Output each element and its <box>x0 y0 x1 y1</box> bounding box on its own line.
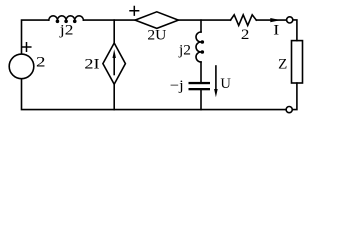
resistor R1 2 <box>231 15 257 26</box>
arrow inside 2I source (pointing up) <box>113 57 115 75</box>
wire left rail top: source to top-left corner and to inductor <box>22 20 49 54</box>
wire bottom rail and left rail bottom <box>22 79 287 110</box>
impedance Z (box) <box>292 41 303 83</box>
svg-text:Z: Z <box>278 56 287 72</box>
voltage source Vs 2 (circle) <box>9 54 34 79</box>
current arrow I <box>270 18 280 22</box>
+ polarity of source Vs <box>22 43 31 52</box>
svg-text:2: 2 <box>241 27 250 43</box>
svg-text:I: I <box>273 22 279 38</box>
capacitor C1 -j (plates) <box>189 82 211 84</box>
svg-text:−j: −j <box>170 78 184 94</box>
terminal node top (circle) <box>287 17 293 23</box>
wire: Z to bottom-right corner to terminal <box>292 83 297 110</box>
svg-text:2I: 2I <box>84 56 99 72</box>
wire: 2I diamond to bottom rail <box>113 84 115 109</box>
wire top: resistor to terminal <box>256 19 286 21</box>
inductor L1 j2 (top) <box>49 16 84 20</box>
wire: inductor to capacitor <box>200 62 202 82</box>
svg-text:j2: j2 <box>178 42 191 58</box>
dependent current source I1 2I (diamond) <box>103 43 126 84</box>
inductor L2 j2 (vertical) <box>196 32 201 62</box>
terminal node bottom (circle) <box>286 107 292 113</box>
svg-text:2: 2 <box>36 55 46 71</box>
wire: top wire to vertical inductor <box>200 20 202 32</box>
wire top: 2U diamond to resistor <box>178 19 230 21</box>
dependent voltage source U1 2U (diamond) <box>135 12 178 29</box>
wire top: inductor to 2U diamond <box>83 19 135 21</box>
svg-text:U: U <box>220 76 231 92</box>
voltage arrow U (pointing down) <box>215 66 217 90</box>
wire: capacitor to bottom rail <box>200 90 202 109</box>
svg-text:2U: 2U <box>147 28 166 44</box>
+ polarity of 2U source <box>130 7 139 16</box>
wire: top wire to 2I diamond <box>113 20 115 43</box>
wire: terminal to top-right corner down to Z <box>293 20 297 41</box>
svg-text:j2: j2 <box>59 22 74 38</box>
